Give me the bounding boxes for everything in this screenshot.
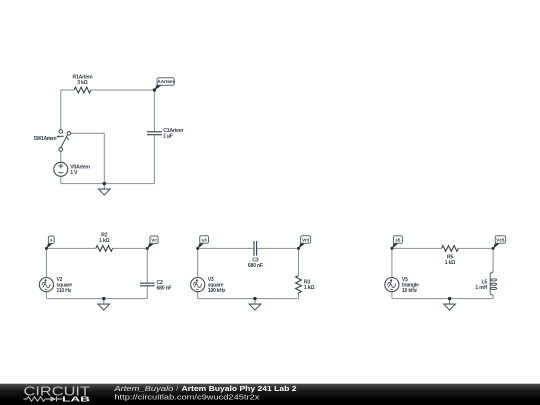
svg-text:10 kHz: 10 kHz <box>402 288 418 294</box>
svg-text:AArtem: AArtem <box>157 79 174 84</box>
svg-text:s3: s3 <box>202 237 208 242</box>
svg-text:110 Hz: 110 Hz <box>56 288 71 294</box>
svg-text:680 nF: 680 nF <box>157 285 172 291</box>
svg-text:100 kHz: 100 kHz <box>208 288 226 294</box>
svg-text:Artem_Buyalo: Artem_Buyalo <box>113 386 173 393</box>
svg-text:1 kΩ: 1 kΩ <box>304 285 314 291</box>
svg-text:1 kΩ: 1 kΩ <box>445 260 455 266</box>
svg-text:Vc5: Vc5 <box>496 237 505 242</box>
svg-text:LAB: LAB <box>62 395 90 404</box>
svg-text:/: / <box>176 386 178 393</box>
svg-text:1 V: 1 V <box>70 170 78 176</box>
svg-text:Vc: Vc <box>151 238 157 243</box>
svg-text:s: s <box>50 238 53 243</box>
svg-text:1 kΩ: 1 kΩ <box>99 238 109 244</box>
svg-text:http://circuitlab.com/c9wucd24: http://circuitlab.com/c9wucd245tr2x <box>114 394 260 401</box>
svg-text:1 µF: 1 µF <box>163 134 173 140</box>
svg-text:s5: s5 <box>395 237 401 242</box>
svg-text:Artem Buyalo Phy 241 Lab 2: Artem Buyalo Phy 241 Lab 2 <box>182 386 297 393</box>
svg-text:1 mH: 1 mH <box>475 285 487 291</box>
svg-text:3 kΩ: 3 kΩ <box>77 80 87 86</box>
svg-text:SW1Artem: SW1Artem <box>34 136 57 142</box>
svg-text:Vr3: Vr3 <box>302 237 310 242</box>
svg-text:680 nF: 680 nF <box>248 263 263 269</box>
